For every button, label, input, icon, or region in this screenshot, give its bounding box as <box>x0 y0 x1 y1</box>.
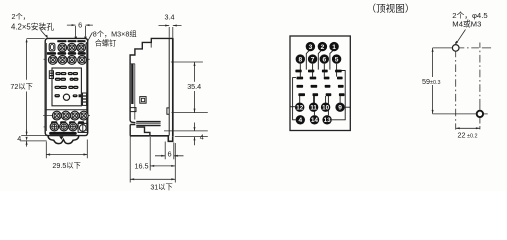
svg-text:1: 1 <box>332 44 336 51</box>
top terminal slot bars <box>57 40 85 42</box>
svg-text:4: 4 <box>298 117 302 124</box>
side tick marks row3 level <box>43 115 90 117</box>
svg-text:4: 4 <box>200 132 204 141</box>
bottom hole <box>477 111 483 117</box>
svg-text:2个，: 2个， <box>12 12 30 21</box>
leader to mounting hole <box>41 31 47 38</box>
wire terminal 4 (left loop) <box>293 78 296 120</box>
leader to screw <box>86 32 92 44</box>
label panel <box>52 68 81 106</box>
terminal slot bars between rows 1-2 <box>47 52 86 55</box>
dimension 6 (top of front view) <box>67 25 93 36</box>
panel center circle <box>63 94 69 100</box>
terminal circles row3: 12 11 10 9 <box>295 103 345 112</box>
dimension 59±0.3 <box>432 48 434 114</box>
tick mark row4 level <box>44 126 46 128</box>
svg-text:3.4: 3.4 <box>165 13 175 22</box>
svg-text:4.2×5安装孔: 4.2×5安装孔 <box>11 22 54 32</box>
clip center notch <box>59 136 63 140</box>
top hole horizontal centerline <box>433 47 492 49</box>
svg-text:3: 3 <box>309 44 313 51</box>
svg-text:16.5: 16.5 <box>135 162 149 171</box>
svg-text:5: 5 <box>335 57 339 64</box>
bottom long slot bar <box>49 132 76 135</box>
screw terminals row 4 <box>50 123 77 131</box>
svg-text:72以下: 72以下 <box>10 82 32 91</box>
svg-text:29.5以下: 29.5以下 <box>52 161 80 170</box>
dimension 29.5以下 <box>46 140 87 159</box>
panel bottom step to right clip <box>81 101 86 103</box>
wire terminal 13 (right loop) <box>332 71 345 120</box>
svg-text:6: 6 <box>168 149 172 158</box>
front view body outline <box>45 38 87 135</box>
svg-text:7: 7 <box>311 57 315 64</box>
wires row3 terminals up <box>300 96 340 103</box>
svg-text:11: 11 <box>310 105 317 112</box>
svg-text:35.4: 35.4 <box>187 82 201 91</box>
small step box lower column <box>130 108 136 112</box>
bottom hole horizontal centerline <box>433 113 488 115</box>
terminal circles row1: 3 2 1 <box>306 42 339 51</box>
pin slots row A <box>295 70 341 73</box>
label 6 (top) <box>78 21 83 28</box>
hold-down clip box on column <box>140 97 146 104</box>
dimension 6 (bottom rail) <box>155 142 184 160</box>
dimension 31以下 <box>130 178 175 180</box>
wires from row2 terminals down <box>300 64 336 77</box>
screw terminals row 2 <box>48 56 86 65</box>
svg-text:4: 4 <box>17 134 21 143</box>
svg-text:6: 6 <box>78 21 82 30</box>
svg-text:M4或M3: M4或M3 <box>452 19 481 29</box>
dimension 16.5 <box>130 127 175 183</box>
top mounting tabs <box>75 36 87 38</box>
panel pin slots row D + center circle <box>55 95 81 97</box>
svg-text:6: 6 <box>322 57 326 64</box>
mounting hole 4.2x5 (oval) <box>49 43 55 51</box>
pin slots row D <box>298 93 344 96</box>
screw terminals row 3 <box>52 111 88 120</box>
dimension 3.4 (rail thickness) <box>159 26 182 38</box>
DIN rail plate <box>169 38 173 136</box>
dimension 4 (front bottom-left) <box>20 130 46 147</box>
panel pin slots row C <box>55 86 78 88</box>
bottom release clip (wavy) <box>48 136 79 144</box>
stub wire terminal 12 to left edge <box>290 106 295 108</box>
side profile outline <box>130 38 173 141</box>
dimension 22±0.2 <box>456 127 480 129</box>
side tick marks row2 level <box>44 58 90 60</box>
wires from row1 terminals down <box>306 51 333 70</box>
separator line above lower terminals <box>46 109 88 111</box>
terminal slot bars between rows 3-4 <box>51 121 84 123</box>
terminal circles row4: 4 14 13 <box>296 115 332 124</box>
label 35.4 <box>186 83 203 91</box>
pin slots row B <box>297 77 343 80</box>
dimension 4 (side, DIN step) <box>164 123 208 146</box>
panel pin slots row A <box>56 73 77 75</box>
rail front clip bump <box>167 108 169 114</box>
step seam line <box>150 42 152 47</box>
svg-text:31以下: 31以下 <box>150 183 172 191</box>
svg-text:（顶视图）: （顶视图） <box>367 3 415 15</box>
left clip (stripes) <box>49 71 53 79</box>
svg-text:9: 9 <box>338 105 342 112</box>
svg-text:12: 12 <box>296 105 303 112</box>
lower terminal center line <box>45 115 87 117</box>
svg-text:8: 8 <box>298 57 302 64</box>
svg-text:2: 2 <box>321 44 325 51</box>
svg-text:14: 14 <box>311 117 318 124</box>
screw terminals row 1 <box>58 43 85 52</box>
label 6 (side) <box>167 150 172 157</box>
column inner line <box>130 64 135 120</box>
dimension 35.4 (right vertical) <box>171 62 208 113</box>
top hole <box>452 45 459 52</box>
top hole vertical centerline (dash-dot) <box>455 42 457 130</box>
terminal view outline <box>290 36 350 131</box>
front view inner outline <box>47 43 87 131</box>
pin slots row C <box>297 85 344 88</box>
panel pin slots row B <box>56 78 78 80</box>
svg-text:13: 13 <box>324 117 331 124</box>
svg-text:10: 10 <box>322 105 329 112</box>
dimension 72以下 (left vertical) <box>27 38 45 134</box>
bottom hole vertical centerline (dash-dot) <box>479 43 481 130</box>
right clip (stripes) <box>83 93 87 105</box>
svg-text:合螺钉: 合螺钉 <box>95 39 117 48</box>
stub wire terminal 9 to right edge <box>345 106 351 108</box>
boxed screw bottom-right <box>78 123 88 132</box>
leader to top hole <box>457 30 466 43</box>
wires row4 coil terminals up <box>314 96 328 115</box>
terminal circles row2: 8 7 6 5 <box>296 54 342 63</box>
screw strip (edge-on screws) <box>131 64 133 104</box>
svg-text:8个，M3×8组: 8个，M3×8组 <box>93 30 137 39</box>
